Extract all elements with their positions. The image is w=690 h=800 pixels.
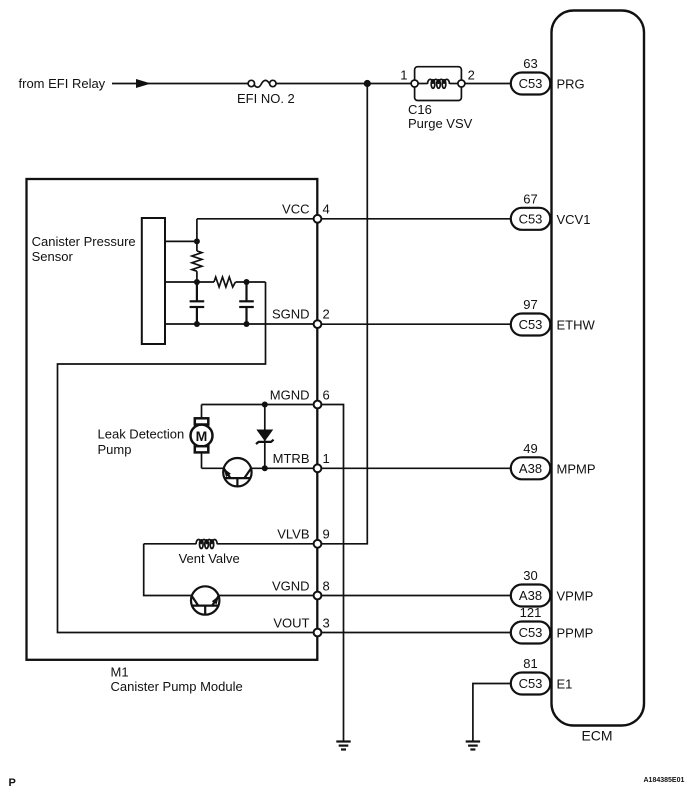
svg-text:VCC: VCC xyxy=(282,202,309,217)
svg-text:VCV1: VCV1 xyxy=(557,212,591,227)
wire MGND row xyxy=(202,404,314,406)
solenoid C16 Purge VSV xyxy=(411,67,465,101)
wire vent valve to transistor Q2 xyxy=(144,544,191,596)
wire VSV to PRG connector xyxy=(465,83,511,85)
node cap2 top junction xyxy=(244,279,250,285)
svg-text:Canister Pressure: Canister Pressure xyxy=(32,234,136,249)
svg-text:67: 67 xyxy=(523,192,537,207)
transistor Q2 xyxy=(191,586,219,614)
svg-text:1: 1 xyxy=(323,451,330,466)
svg-text:Vent Valve: Vent Valve xyxy=(179,551,240,566)
svg-text:3: 3 xyxy=(323,615,330,630)
svg-text:Canister Pump Module: Canister Pump Module xyxy=(111,679,243,694)
wire motor to transistor Q1 xyxy=(202,467,224,469)
svg-text:4: 4 xyxy=(323,202,330,217)
svg-text:Pump: Pump xyxy=(98,442,132,457)
svg-text:PPMP: PPMP xyxy=(557,626,594,641)
svg-text:VPMP: VPMP xyxy=(557,589,594,604)
svg-text:2: 2 xyxy=(468,68,475,83)
svg-text:1: 1 xyxy=(400,68,407,83)
motor M leak detection pump xyxy=(191,405,213,469)
module pin circle VGND 8 xyxy=(314,592,322,600)
svg-text:97: 97 xyxy=(523,297,537,312)
resistor R1 vertical xyxy=(192,251,202,271)
wire VCC to VCV1 connector xyxy=(322,218,511,220)
svg-text:Sensor: Sensor xyxy=(32,249,74,264)
resistor R2 horizontal xyxy=(214,277,236,287)
label Leak Detection Pump xyxy=(98,426,185,457)
wire EFI relay to fuse xyxy=(112,83,248,85)
svg-text:P: P xyxy=(9,777,16,789)
connector C53 pin 63 PRG xyxy=(511,56,551,94)
svg-text:2: 2 xyxy=(323,307,330,322)
wire MTRB to MPMP connector xyxy=(322,467,511,469)
node SGND cap1 junction xyxy=(194,321,200,327)
wire VCC row xyxy=(197,218,314,220)
svg-text:VOUT: VOUT xyxy=(273,615,309,630)
wire VOUT to PPMP connector xyxy=(322,632,511,634)
ECM box xyxy=(552,11,645,726)
svg-text:Purge VSV: Purge VSV xyxy=(408,116,473,131)
node SGND cap2 junction xyxy=(244,321,250,327)
svg-text:A38: A38 xyxy=(519,588,542,603)
capacitor C2 xyxy=(239,282,254,324)
svg-text:MGND: MGND xyxy=(270,387,310,402)
svg-text:C16: C16 xyxy=(408,102,432,117)
connector A38 pin 49 MPMP xyxy=(511,441,551,479)
wire E1 to ground xyxy=(473,684,511,742)
svg-text:from EFI Relay: from EFI Relay xyxy=(19,76,106,91)
svg-text:C53: C53 xyxy=(519,211,543,226)
wire MGND to ground xyxy=(322,405,344,742)
node mid junction xyxy=(194,279,200,285)
wire vertical VCC drop xyxy=(196,219,198,251)
ground symbol left xyxy=(336,742,350,750)
svg-text:Leak Detection: Leak Detection xyxy=(98,426,185,441)
connector A38 pin 30 VPMP xyxy=(511,568,551,606)
transistor Q1 xyxy=(223,458,251,486)
capacitor C1 xyxy=(190,282,205,324)
wire VOUT feed from RC node xyxy=(58,282,314,633)
canister pressure sensor box xyxy=(142,218,165,344)
wire SGND to ETHW connector xyxy=(322,323,511,325)
module pin circle VCC 4 xyxy=(314,215,322,223)
svg-text:MTRB: MTRB xyxy=(273,451,310,466)
arrowhead on EFI wire xyxy=(136,79,151,88)
wire sensor mid lead xyxy=(165,281,214,283)
node junction at top wire xyxy=(364,80,371,87)
svg-text:121: 121 xyxy=(520,605,542,620)
wire resistor to cap2 node xyxy=(236,281,266,283)
wire vertical from top junction down to VLVB xyxy=(322,84,368,544)
svg-text:M1: M1 xyxy=(111,665,129,680)
svg-text:VGND: VGND xyxy=(272,578,310,593)
label Canister Pressure Sensor xyxy=(32,234,136,264)
module pin circle VLVB 9 xyxy=(314,540,322,548)
connector C53 pin 121 PPMP xyxy=(511,605,551,643)
svg-text:ECM: ECM xyxy=(581,728,612,744)
svg-text:C53: C53 xyxy=(519,76,543,91)
svg-text:C53: C53 xyxy=(519,676,543,691)
svg-text:63: 63 xyxy=(523,56,537,71)
svg-text:PRG: PRG xyxy=(557,77,585,92)
zener diode D1 xyxy=(256,405,274,469)
wire VGND to VPMP connector xyxy=(322,595,511,597)
ground symbol right xyxy=(466,742,480,750)
node sensor top junction xyxy=(194,238,200,244)
svg-text:E1: E1 xyxy=(557,677,573,692)
connector C53 pin 67 VCV1 xyxy=(511,192,551,230)
svg-text:SGND: SGND xyxy=(272,307,310,322)
svg-text:8: 8 xyxy=(323,578,330,593)
svg-text:30: 30 xyxy=(523,568,537,583)
fuse EFI NO. 2 xyxy=(248,80,276,87)
svg-text:VLVB: VLVB xyxy=(277,527,309,542)
svg-text:ETHW: ETHW xyxy=(557,318,596,333)
connector C53 pin 97 ETHW xyxy=(511,297,551,335)
svg-text:M: M xyxy=(196,428,208,444)
svg-text:A38: A38 xyxy=(519,461,542,476)
module pin circle MGND 6 xyxy=(314,401,322,409)
svg-text:A184385E01: A184385E01 xyxy=(644,777,685,784)
connector C53 pin 81 E1 xyxy=(511,656,551,694)
wire MTRB row xyxy=(251,467,314,469)
wire fuse to Purge VSV xyxy=(276,83,411,85)
wire resistor to mid node xyxy=(196,271,198,282)
svg-text:49: 49 xyxy=(523,441,537,456)
svg-text:MPMP: MPMP xyxy=(557,462,596,477)
inductor vent valve coil xyxy=(196,540,217,549)
node MTRB diode junction xyxy=(262,465,268,471)
module pin circle SGND 2 xyxy=(314,320,322,328)
module pin circle MTRB 1 xyxy=(314,464,322,472)
svg-text:9: 9 xyxy=(323,527,330,542)
svg-text:C53: C53 xyxy=(519,317,543,332)
wire sensor top lead xyxy=(165,240,197,242)
module pin circle VOUT 3 xyxy=(314,629,322,637)
svg-text:EFI NO. 2: EFI NO. 2 xyxy=(237,91,295,106)
wire VLVB row with vent valve coil xyxy=(144,543,196,545)
module M1 box xyxy=(27,179,318,660)
svg-text:81: 81 xyxy=(523,656,537,671)
wire VGND row xyxy=(219,595,314,597)
svg-text:C53: C53 xyxy=(519,625,543,640)
node MGND diode junction xyxy=(262,402,268,408)
svg-text:6: 6 xyxy=(323,387,330,402)
wire SGND row xyxy=(165,323,314,325)
